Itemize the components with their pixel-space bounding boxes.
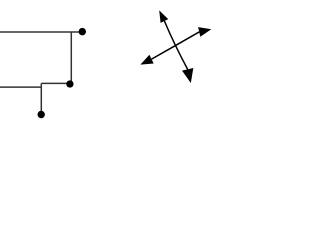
arrowhead D (bottom tip of arrow 2) <box>182 68 193 83</box>
arrow shaft 1 (lower-left to upper-right) <box>152 32 200 59</box>
arrowhead B (upper-right tip of arrow 1) <box>198 27 211 37</box>
junction dot D2 (middle) <box>66 80 73 87</box>
arrowhead C (top tip of arrow 2) <box>159 10 168 22</box>
wire W2 vertical drop <box>70 32 72 84</box>
wire W4 lower-left horizontal <box>0 86 41 88</box>
wire W5 lower vertical <box>40 83 42 114</box>
arrow shaft 2 (top to bottom) <box>164 21 187 69</box>
junction dot D1 (end of top wire) <box>79 28 86 35</box>
wire W1 top horizontal <box>0 31 82 33</box>
junction dot D3 (bottom) <box>38 111 45 118</box>
wire W3 middle horizontal <box>41 82 70 84</box>
arrowhead A (lower-left tip of arrow 1) <box>140 55 153 65</box>
